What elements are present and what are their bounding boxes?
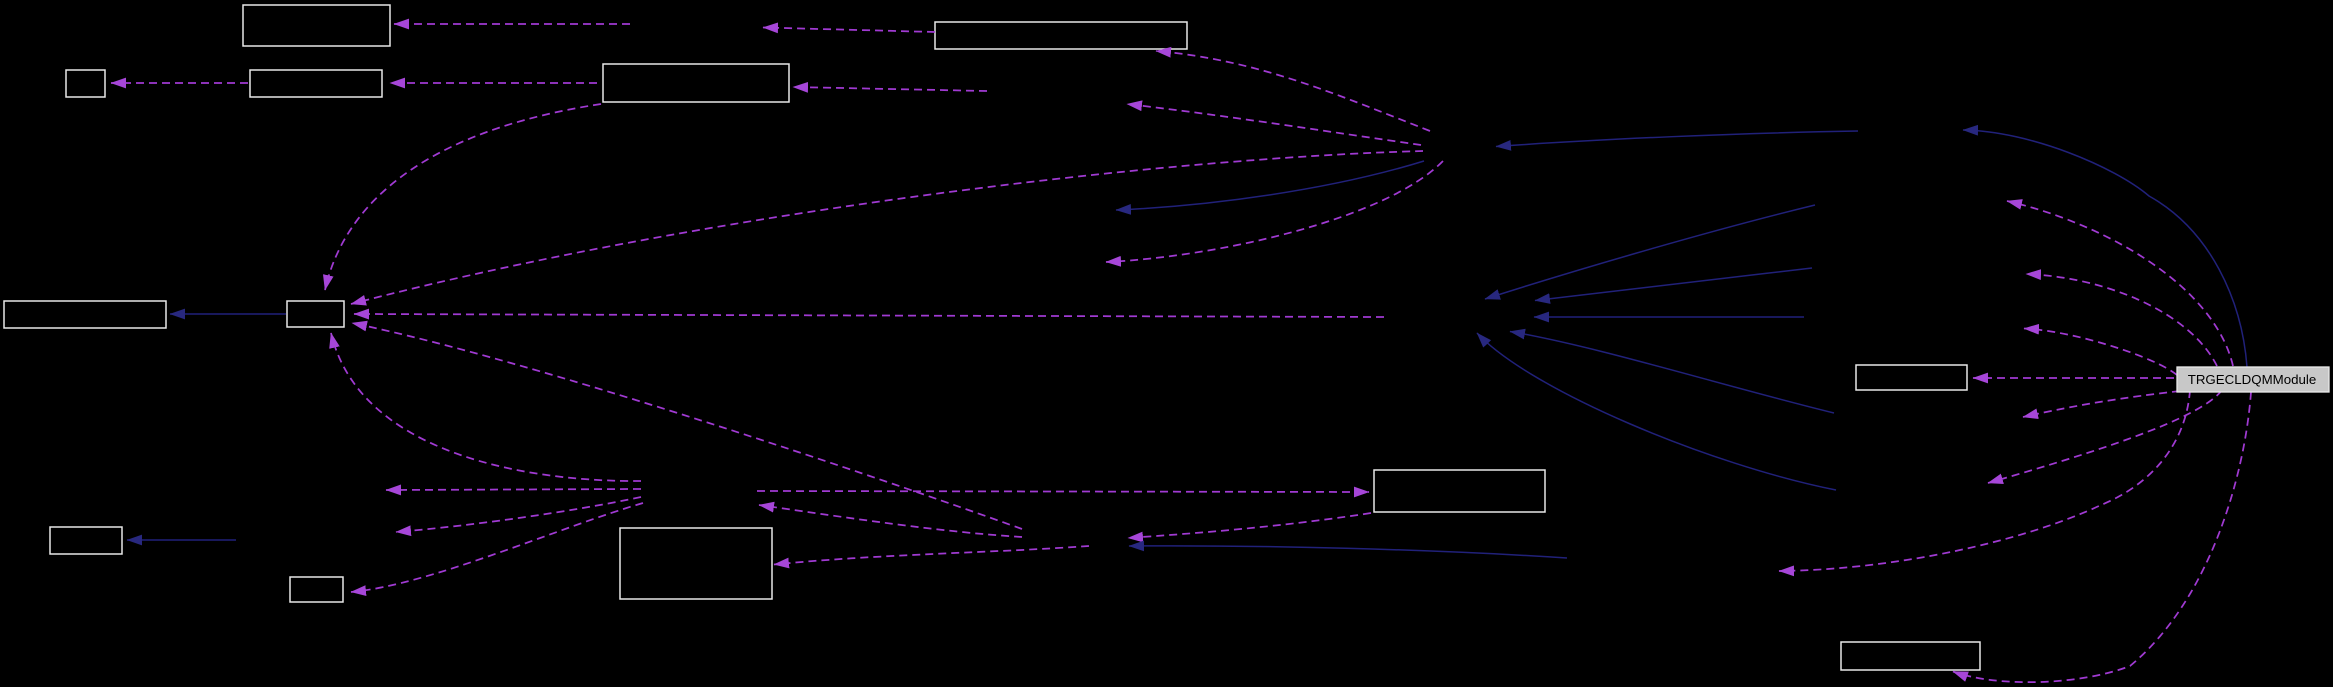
node box13 [1841, 642, 1980, 670]
node box7 [287, 301, 344, 327]
edge dashed: hub P3 to box9 [774, 546, 1089, 565]
node box6 [4, 301, 166, 328]
edge dashed: hidden node N34 to box4 [793, 87, 987, 91]
node TRGECLDQMModule [2177, 367, 2329, 392]
edge dashed: box4 to box7 (curve) [325, 104, 601, 290]
edge dashed: hub P3 to box7 lower-right (long diagonal) [352, 323, 1022, 529]
edge dashed: TRGECLDQMModule fan 3 [2024, 329, 2177, 376]
svg-text:TRGECLDQMModule: TRGECLDQMModule [2188, 372, 2317, 387]
edge dashed: TRGECLDQMModule fan 1 [2007, 201, 2233, 366]
node box3 [250, 70, 382, 97]
edge dashed: box4 to box3 [390, 82, 597, 84]
node box12 [1856, 365, 1967, 390]
edge dashed: box3 to box2 [111, 82, 248, 84]
edge dashed: hub P4 to box8 (long horizontal, arrow right) [757, 491, 1369, 492]
node box1 [243, 5, 390, 46]
edge dashed: hub P1 to box7 top-right (long) [351, 151, 1423, 304]
edge blue: hub P1 to hidden node N6 [1116, 161, 1424, 210]
edge dashed: hub P3 to hub P4 [759, 505, 1022, 537]
edge dashed: hub P4 to hidden node N8 [396, 497, 641, 532]
edge dashed: hub P1 to hidden node N7 [1106, 161, 1443, 262]
edge dashed: TRGECLDQMModule fan 2 [2026, 274, 2217, 366]
edge dashed: TRGECLDQMModule to hidden node N19 (swoop) [1779, 390, 2190, 571]
node box4 [603, 64, 789, 102]
node box9 [620, 528, 772, 599]
edge dashed: hub P1 to hidden node N34 [1127, 104, 1421, 145]
edge blue: hidden node N19 to hub P3 [1129, 546, 1567, 558]
edge dashed: TRGECLDQMModule fan 5 [1988, 390, 2222, 483]
edge dashed: TRGECLDQMModule to box12 [1973, 377, 2174, 379]
node box8 [1374, 470, 1545, 512]
edge dashed: hidden node to box1 [394, 23, 630, 25]
edge dashed: hub P4 to box11 [351, 503, 643, 592]
node box5 [935, 22, 1187, 49]
node box11 [290, 577, 343, 602]
edge dashed: TRGECLDQMModule to box13 (big swoop) [1953, 392, 2251, 682]
edge dashed: box8 to hub P3 [1128, 513, 1371, 538]
edge dashed: TRGECLDQMModule fan 4 [2023, 391, 2180, 417]
edge dashed: hidden node N5 to box7 (long horizontal) [354, 314, 1384, 317]
edge blue: hidden node N16 to P2 tip3 [1534, 316, 1804, 318]
edge blue: hidden node N13 to hub P1 [1496, 131, 1858, 147]
edge dashed: hub P4 to box7 bottom (curve) [331, 333, 641, 481]
node box10 [50, 527, 122, 554]
edge blue: hidden node N18 to P2 tip5 (curve) [1477, 333, 1836, 490]
edge blue: hidden node N14 to P2 tip1 [1485, 205, 1815, 299]
edge blue: TRGECLDQMModule to hidden node N13 (top curve) [1963, 130, 2247, 367]
edge dashed: box5 to hidden node [763, 28, 935, 33]
edge blue: hidden node N15 to P2 tip2 [1535, 268, 1812, 301]
edge dashed: hub P4 to hidden node N9 [386, 489, 641, 490]
edge blue: box7 to box6 [170, 313, 286, 315]
edge blue: hidden node N8 to box10 [127, 539, 236, 541]
node box2 [66, 70, 105, 97]
edge blue: hidden node N17 to P2 tip4 [1510, 332, 1834, 414]
edge dashed: hub P1 to box5 bottom [1156, 51, 1430, 131]
